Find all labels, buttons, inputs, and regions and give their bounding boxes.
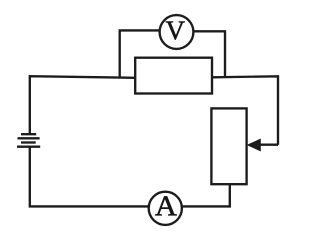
battery B1: second long plate [18,137,40,139]
ammeter U2 circle [149,192,182,225]
wire: left rail from battery top up to top-left corner, then right to resistor left terminal [30,76,135,133]
battery B1: third short plate [21,141,36,143]
voltmeter U1 circle [160,15,194,49]
wire: voltmeter right branch (meter right, then down to resistor right wire) [193,31,225,77]
ammeter label A [155,196,176,215]
wire: rheostat bottom terminal down, then left to ammeter [183,184,230,206]
wire: resistor right terminal to right rail, down to wiper level [212,76,278,144]
battery B1: bottom long plate [17,146,40,148]
rheostat RP (vertical box) [211,108,246,184]
resistor R (horizontal box) [135,58,212,94]
arrowhead of rheostat wiper [248,139,260,150]
wire: voltmeter left branch (junction above resistor-left wire, up and right to meter) [120,30,160,77]
battery B1: top short plate [21,133,36,135]
wire: wiper lead [260,144,279,146]
voltmeter label V [166,22,185,40]
wire: ammeter left to bottom-left corner, then up to battery bottom [30,147,149,206]
